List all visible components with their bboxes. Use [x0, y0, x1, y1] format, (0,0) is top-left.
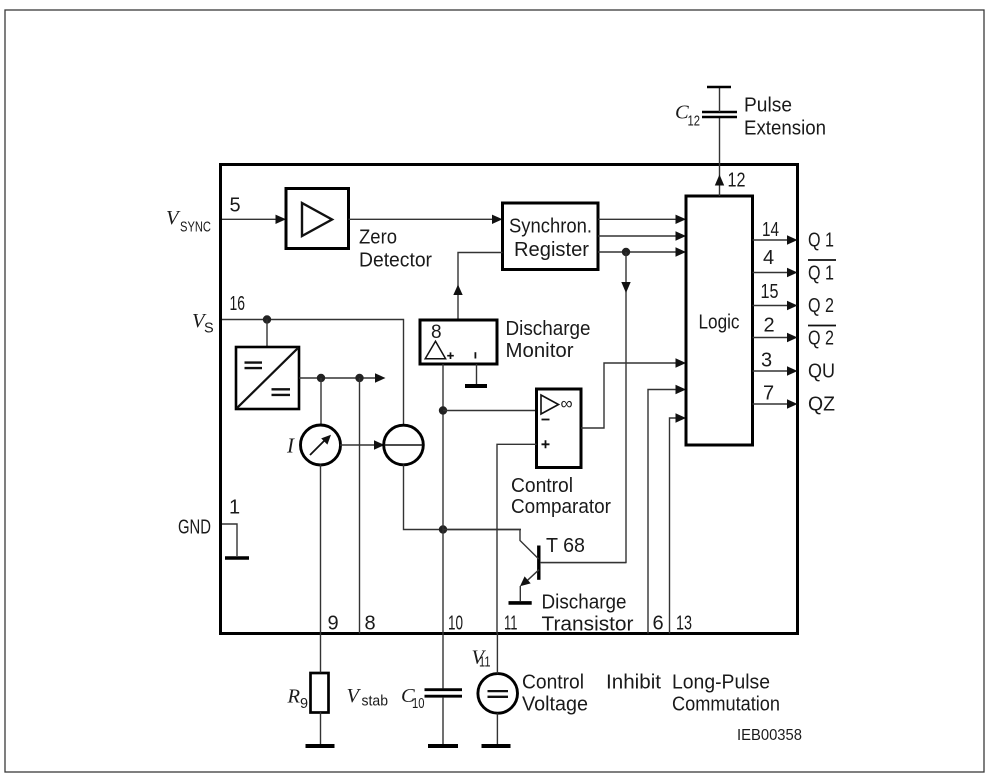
svg-text:Transistor: Transistor: [542, 614, 634, 636]
ground under C10: [428, 744, 458, 748]
wire pin 11 to comparator plus: [497, 444, 537, 633]
junction ramp to comparator: [439, 406, 447, 414]
wire VS pin 16 rail: [222, 320, 404, 426]
V11 bottom wire: [496, 713, 498, 744]
synchron register block: [503, 203, 599, 270]
transistor T68 base bar: [537, 546, 540, 580]
transistor collector wire: [540, 562, 626, 564]
zero detector amp triangle: [302, 203, 332, 236]
transistor base wire: [443, 530, 539, 560]
logic output QZ pin 7: [753, 403, 789, 405]
svg-text:S: S: [204, 321, 214, 337]
svg-text:16: 16: [230, 293, 246, 315]
minus sign: [542, 419, 550, 421]
V11 top wire: [496, 634, 498, 674]
R9 top wire: [320, 634, 322, 673]
IC block outline U1: [221, 165, 798, 634]
svg-text:Q 2: Q 2: [808, 295, 834, 317]
svg-text:Long-Pulse: Long-Pulse: [672, 672, 770, 694]
svg-text:SYNC: SYNC: [180, 220, 211, 236]
svg-text:Zero: Zero: [359, 227, 397, 249]
svg-text:QU: QU: [808, 361, 835, 383]
svg-text:9: 9: [300, 696, 308, 712]
arrow into synchron register: [492, 215, 503, 224]
svg-text:2: 2: [764, 315, 775, 337]
C10 top wire: [442, 634, 444, 689]
voltage converter block: [236, 347, 299, 409]
wire pin 8 stab rail down: [359, 378, 361, 634]
junction on line 3: [622, 248, 630, 256]
logic output Q1bar pin 4: [753, 272, 789, 274]
wire ramp to comparator minus: [443, 410, 537, 412]
arrow on converter output: [375, 373, 386, 382]
junction ramp node low: [439, 525, 447, 533]
svg-text:Voltage: Voltage: [522, 694, 588, 716]
svg-text:R: R: [287, 686, 301, 708]
wire register to logic line 3: [598, 251, 677, 253]
ground under V11: [482, 744, 511, 748]
svg-text:Commutation: Commutation: [672, 694, 780, 716]
plus sign in monitor: [447, 352, 454, 359]
svg-text:Q 1: Q 1: [808, 230, 834, 252]
svg-text:10: 10: [448, 613, 463, 635]
wire junction to converter: [266, 320, 268, 348]
logic block: [686, 196, 753, 445]
tick mark in monitor: [474, 352, 476, 358]
svg-text:10: 10: [412, 696, 425, 712]
control comparator block: [537, 389, 582, 468]
wire monitor to ground: [476, 364, 478, 384]
ground under transistor: [509, 601, 532, 605]
wire pin 6 inhibit to logic: [648, 390, 677, 634]
monitor triangle symbol: [425, 341, 445, 359]
junction converter out 1: [317, 374, 325, 382]
ground bar pin 1: [225, 556, 249, 560]
svg-text:Inhibit: Inhibit: [606, 672, 661, 694]
converter diagonal: [237, 348, 298, 408]
wire current source to ramp node: [404, 465, 522, 530]
logic output Q1 pin 14: [753, 239, 789, 241]
ground under monitor: [465, 384, 487, 388]
converter lower equals: [272, 389, 291, 395]
logic output QU pin 3: [753, 370, 789, 372]
current source circle: [384, 425, 424, 465]
wire pin 13 commutation to logic: [670, 418, 678, 634]
arrow up on monitor output: [453, 285, 462, 296]
svg-text:stab: stab: [362, 694, 389, 710]
wire ramp rail pin 10: [442, 364, 444, 634]
gauge needle: [310, 439, 327, 456]
junction converter out 2: [355, 374, 363, 382]
svg-text:Control: Control: [511, 475, 573, 497]
svg-text:13: 13: [676, 613, 692, 635]
emitter down wire: [519, 586, 521, 601]
wire junction1 down to current gauge: [320, 378, 322, 426]
svg-text:5: 5: [230, 195, 241, 217]
svg-text:11: 11: [479, 655, 491, 671]
resistor R9: [311, 673, 329, 713]
svg-text:Register: Register: [514, 239, 589, 261]
transistor emitter wire: [528, 570, 540, 581]
plus sign: [542, 440, 550, 448]
arrow down on collector wire: [621, 282, 630, 293]
svg-text:12: 12: [728, 170, 746, 192]
svg-text:Discharge: Discharge: [506, 318, 591, 340]
wire gauge to current source: [340, 444, 375, 446]
svg-text:6: 6: [653, 613, 664, 635]
svg-text:QZ: QZ: [808, 394, 835, 416]
svg-text:T 68: T 68: [546, 535, 585, 557]
svg-text:Synchron.: Synchron.: [509, 216, 592, 238]
svg-text:Q 2: Q 2: [808, 328, 834, 350]
svg-text:7: 7: [763, 383, 774, 405]
ground under R9: [306, 744, 335, 748]
svg-text:Detector: Detector: [359, 250, 432, 272]
converter upper equals: [245, 363, 263, 369]
svg-text:I: I: [286, 434, 295, 458]
arrow into current source: [374, 440, 385, 449]
wire register to logic line 2: [598, 235, 677, 237]
svg-text:4: 4: [763, 247, 774, 269]
comparator triangle: [541, 395, 559, 414]
wire discharge monitor output to register: [458, 253, 503, 321]
svg-text:Logic: Logic: [699, 312, 740, 334]
svg-text:8: 8: [431, 322, 442, 343]
svg-text:Control: Control: [522, 672, 584, 694]
svg-text:∞: ∞: [561, 394, 573, 413]
svg-text:1: 1: [229, 497, 240, 519]
C12 top bar: [707, 86, 731, 89]
R9 bottom wire: [320, 712, 322, 744]
svg-text:9: 9: [328, 613, 339, 635]
wire VSYNC input pin 5: [222, 218, 276, 220]
svg-text:12: 12: [688, 114, 701, 130]
svg-text:3: 3: [761, 350, 772, 372]
wire comparator output to logic: [581, 363, 677, 428]
capacitor C12: [702, 112, 737, 117]
current source bar: [384, 444, 423, 446]
svg-text:Pulse: Pulse: [744, 95, 792, 117]
arrow into zero detector: [276, 215, 287, 224]
wire junction down to discharge transistor collector: [541, 252, 626, 563]
svg-text:11: 11: [504, 613, 518, 635]
svg-text:8: 8: [365, 613, 376, 635]
svg-text:IEB00358: IEB00358: [737, 727, 802, 744]
C12 top terminal wire: [719, 88, 721, 112]
svg-text:GND: GND: [178, 517, 211, 539]
svg-text:Q 1: Q 1: [808, 263, 834, 285]
arrow up pin 12: [715, 175, 724, 186]
emitter arrow: [520, 576, 531, 586]
pin 12 wire with pulse extension cap: [719, 117, 721, 196]
current gauge I circle: [301, 425, 341, 465]
junction VS to converter: [263, 315, 271, 323]
svg-text:14: 14: [762, 219, 779, 241]
GND pin 1 wire: [222, 524, 237, 556]
wire converter output rail: [299, 377, 376, 379]
voltage source V11: [478, 674, 518, 714]
V11 equals: [488, 691, 509, 697]
svg-text:Extension: Extension: [744, 118, 826, 140]
wire zero detector to synchron register: [349, 218, 494, 220]
discharge monitor block: [420, 320, 497, 364]
zero detector block: [286, 189, 349, 249]
logic output Q2 pin 15: [753, 305, 789, 307]
wire gauge bottom to pin 9: [320, 465, 322, 634]
logic output Q2bar pin 2: [753, 337, 789, 339]
svg-text:Comparator: Comparator: [511, 496, 611, 518]
svg-text:Monitor: Monitor: [506, 340, 574, 362]
svg-text:15: 15: [761, 281, 779, 303]
capacitor C10: [425, 690, 463, 697]
C10 bottom wire: [442, 698, 444, 744]
svg-text:Discharge: Discharge: [542, 592, 627, 614]
wire register to logic line 1: [598, 218, 677, 220]
